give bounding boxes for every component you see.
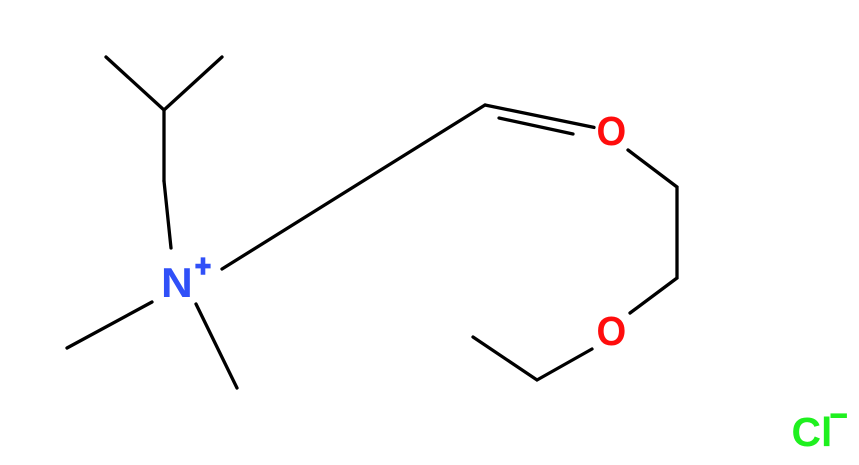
svg-text:Cl: Cl: [792, 409, 833, 455]
svg-text:O: O: [597, 308, 627, 354]
svg-text:N: N: [161, 260, 193, 306]
svg-text:O: O: [597, 108, 627, 154]
